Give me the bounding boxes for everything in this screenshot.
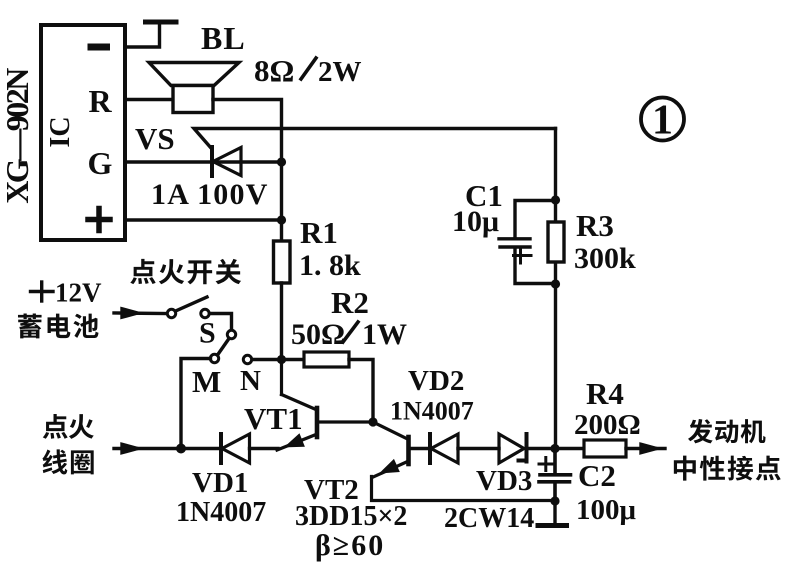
speaker BL cone	[149, 63, 239, 86]
arrow on +12V wire	[122, 309, 138, 317]
wire: minus pin to antenna terminal	[125, 23, 160, 47]
svg-text:3DD15×2: 3DD15×2	[295, 501, 407, 532]
switch blade S-M	[218, 339, 230, 356]
zener diode VD3 2CW14	[499, 434, 527, 463]
pin label minus	[88, 44, 111, 51]
ignition coil wire (left)	[114, 447, 220, 450]
svg-text:12V: 12V	[55, 278, 102, 308]
wire: C2 to ground	[553, 501, 556, 523]
node: R4/C2 junction	[550, 444, 559, 453]
node: C1/R3 bottom junction	[551, 279, 560, 288]
wire: VD2 to VD3	[458, 447, 499, 450]
wire: R4 to engine neutral point	[626, 447, 665, 450]
label zhong-xing-jie-dian (neutral point)	[674, 456, 781, 481]
switch pole S	[227, 330, 235, 338]
svg-text:BL: BL	[201, 20, 246, 56]
node: C1/R3 top junction	[551, 195, 560, 204]
svg-text:1. 8k: 1. 8k	[299, 249, 361, 282]
svg-text:XG—902N: XG—902N	[0, 68, 35, 204]
wire: G pin line	[125, 160, 282, 163]
svg-text:VS: VS	[135, 121, 175, 156]
node: VT1 base / VT2 collector junction	[368, 417, 377, 426]
capacitor C2 100u	[539, 449, 571, 502]
svg-text:G: G	[88, 145, 113, 181]
capacitor C1 10u	[499, 201, 556, 284]
label dian-huo-kai-guan (ignition switch)	[130, 259, 241, 284]
svg-text:50Ω: 50Ω	[291, 318, 345, 351]
pin label plus	[88, 209, 110, 231]
svg-text:C2: C2	[578, 458, 616, 493]
wire: B contact to S pole	[210, 314, 232, 331]
svg-text:R: R	[88, 83, 112, 119]
transistor VT2 3DD15x2	[372, 422, 556, 501]
svg-text:R4: R4	[586, 376, 624, 411]
svg-text:β≥60: β≥60	[315, 529, 385, 562]
label +12V plus sign	[31, 282, 54, 301]
svg-text:IC: IC	[45, 116, 76, 147]
label xian-quan (coil)	[42, 449, 93, 474]
diode VD2 1N4007	[430, 434, 458, 463]
resistor R1 1.8k	[274, 241, 291, 283]
svg-text:1A 100V: 1A 100V	[151, 178, 269, 211]
switch blade (open)	[176, 297, 208, 311]
svg-text:M: M	[192, 364, 221, 399]
svg-text:1: 1	[652, 98, 673, 144]
label dian-huo (ignition)	[43, 414, 94, 439]
node: coil/M junction	[176, 444, 186, 454]
svg-text:2W: 2W	[318, 56, 362, 88]
speaker BL magnet	[173, 86, 213, 113]
svg-text:N: N	[240, 365, 261, 397]
wire: R2 to VT1 base	[349, 360, 373, 423]
node: plus line junction	[277, 215, 286, 224]
wire: plus pin line	[125, 218, 282, 221]
wire: speaker to right vertical	[213, 100, 282, 242]
wire: VS cathode hook to supply rail	[194, 129, 556, 149]
svg-text:R3: R3	[576, 208, 614, 243]
svg-text:300k: 300k	[574, 242, 636, 275]
wire: M contact down to coil line	[181, 359, 211, 449]
slash in 50ohm/1W	[343, 322, 358, 342]
wire: R pin to speaker	[125, 98, 173, 101]
transistor VT1	[277, 360, 373, 451]
svg-text:100μ: 100μ	[576, 494, 637, 526]
label fa-dong-ji (engine)	[688, 419, 766, 443]
svg-text:VD3: VD3	[476, 465, 532, 497]
label xu-dian-chi (battery)	[18, 313, 99, 338]
IC U1 box XG-902N	[41, 25, 125, 240]
node: emitter/C2 ground junction	[550, 496, 559, 505]
battery feed wire +12V	[114, 311, 167, 315]
switch contact B	[201, 309, 209, 317]
capacitor C2 100u plus sign	[539, 458, 553, 471]
svg-text:2CW14: 2CW14	[444, 503, 534, 534]
slash in 8ohm/2W	[301, 58, 316, 79]
switch contact M	[210, 354, 218, 362]
svg-text:10μ: 10μ	[452, 205, 499, 238]
svg-text:VT1: VT1	[244, 401, 303, 436]
svg-text:8Ω: 8Ω	[254, 53, 294, 88]
node: R1/R2/N junction	[277, 355, 286, 364]
node: G line junction	[277, 157, 286, 166]
ground	[538, 523, 567, 528]
capacitor C1 plus sign	[514, 248, 532, 263]
resistor R2 50ohm/1W	[282, 358, 305, 361]
svg-text:R2: R2	[331, 285, 369, 320]
wire: VT2 base to VD2	[411, 447, 431, 450]
svg-text:S: S	[199, 317, 216, 350]
arrow on coil wire	[122, 444, 138, 452]
wire: VD1 to VT1 emitter	[250, 447, 279, 450]
resistor R4 200ohm	[584, 440, 626, 457]
svg-text:1W: 1W	[362, 318, 407, 351]
svg-text:R1: R1	[300, 215, 338, 250]
svg-text:1N4007: 1N4007	[176, 497, 266, 528]
diode VS 1A 100V	[212, 147, 241, 176]
arrow on output wire	[641, 444, 657, 452]
diode VD1 1N4007	[221, 434, 250, 463]
svg-text:200Ω: 200Ω	[574, 409, 641, 441]
antenna/terminal bar	[146, 20, 177, 25]
figure number 1 circle	[641, 98, 684, 141]
switch contact N	[243, 355, 251, 363]
supply rail vertical (right)	[554, 129, 557, 223]
switch contact A	[167, 309, 175, 317]
wire: VD3 to R4	[529, 447, 585, 450]
svg-text:1N4007: 1N4007	[390, 397, 474, 426]
resistor R3 300k	[548, 222, 564, 262]
wire: R1 to node N junction	[280, 283, 283, 360]
svg-text:VD2: VD2	[408, 365, 464, 397]
svg-text:VD1: VD1	[192, 467, 248, 499]
wire: N contact to junction	[252, 358, 277, 361]
